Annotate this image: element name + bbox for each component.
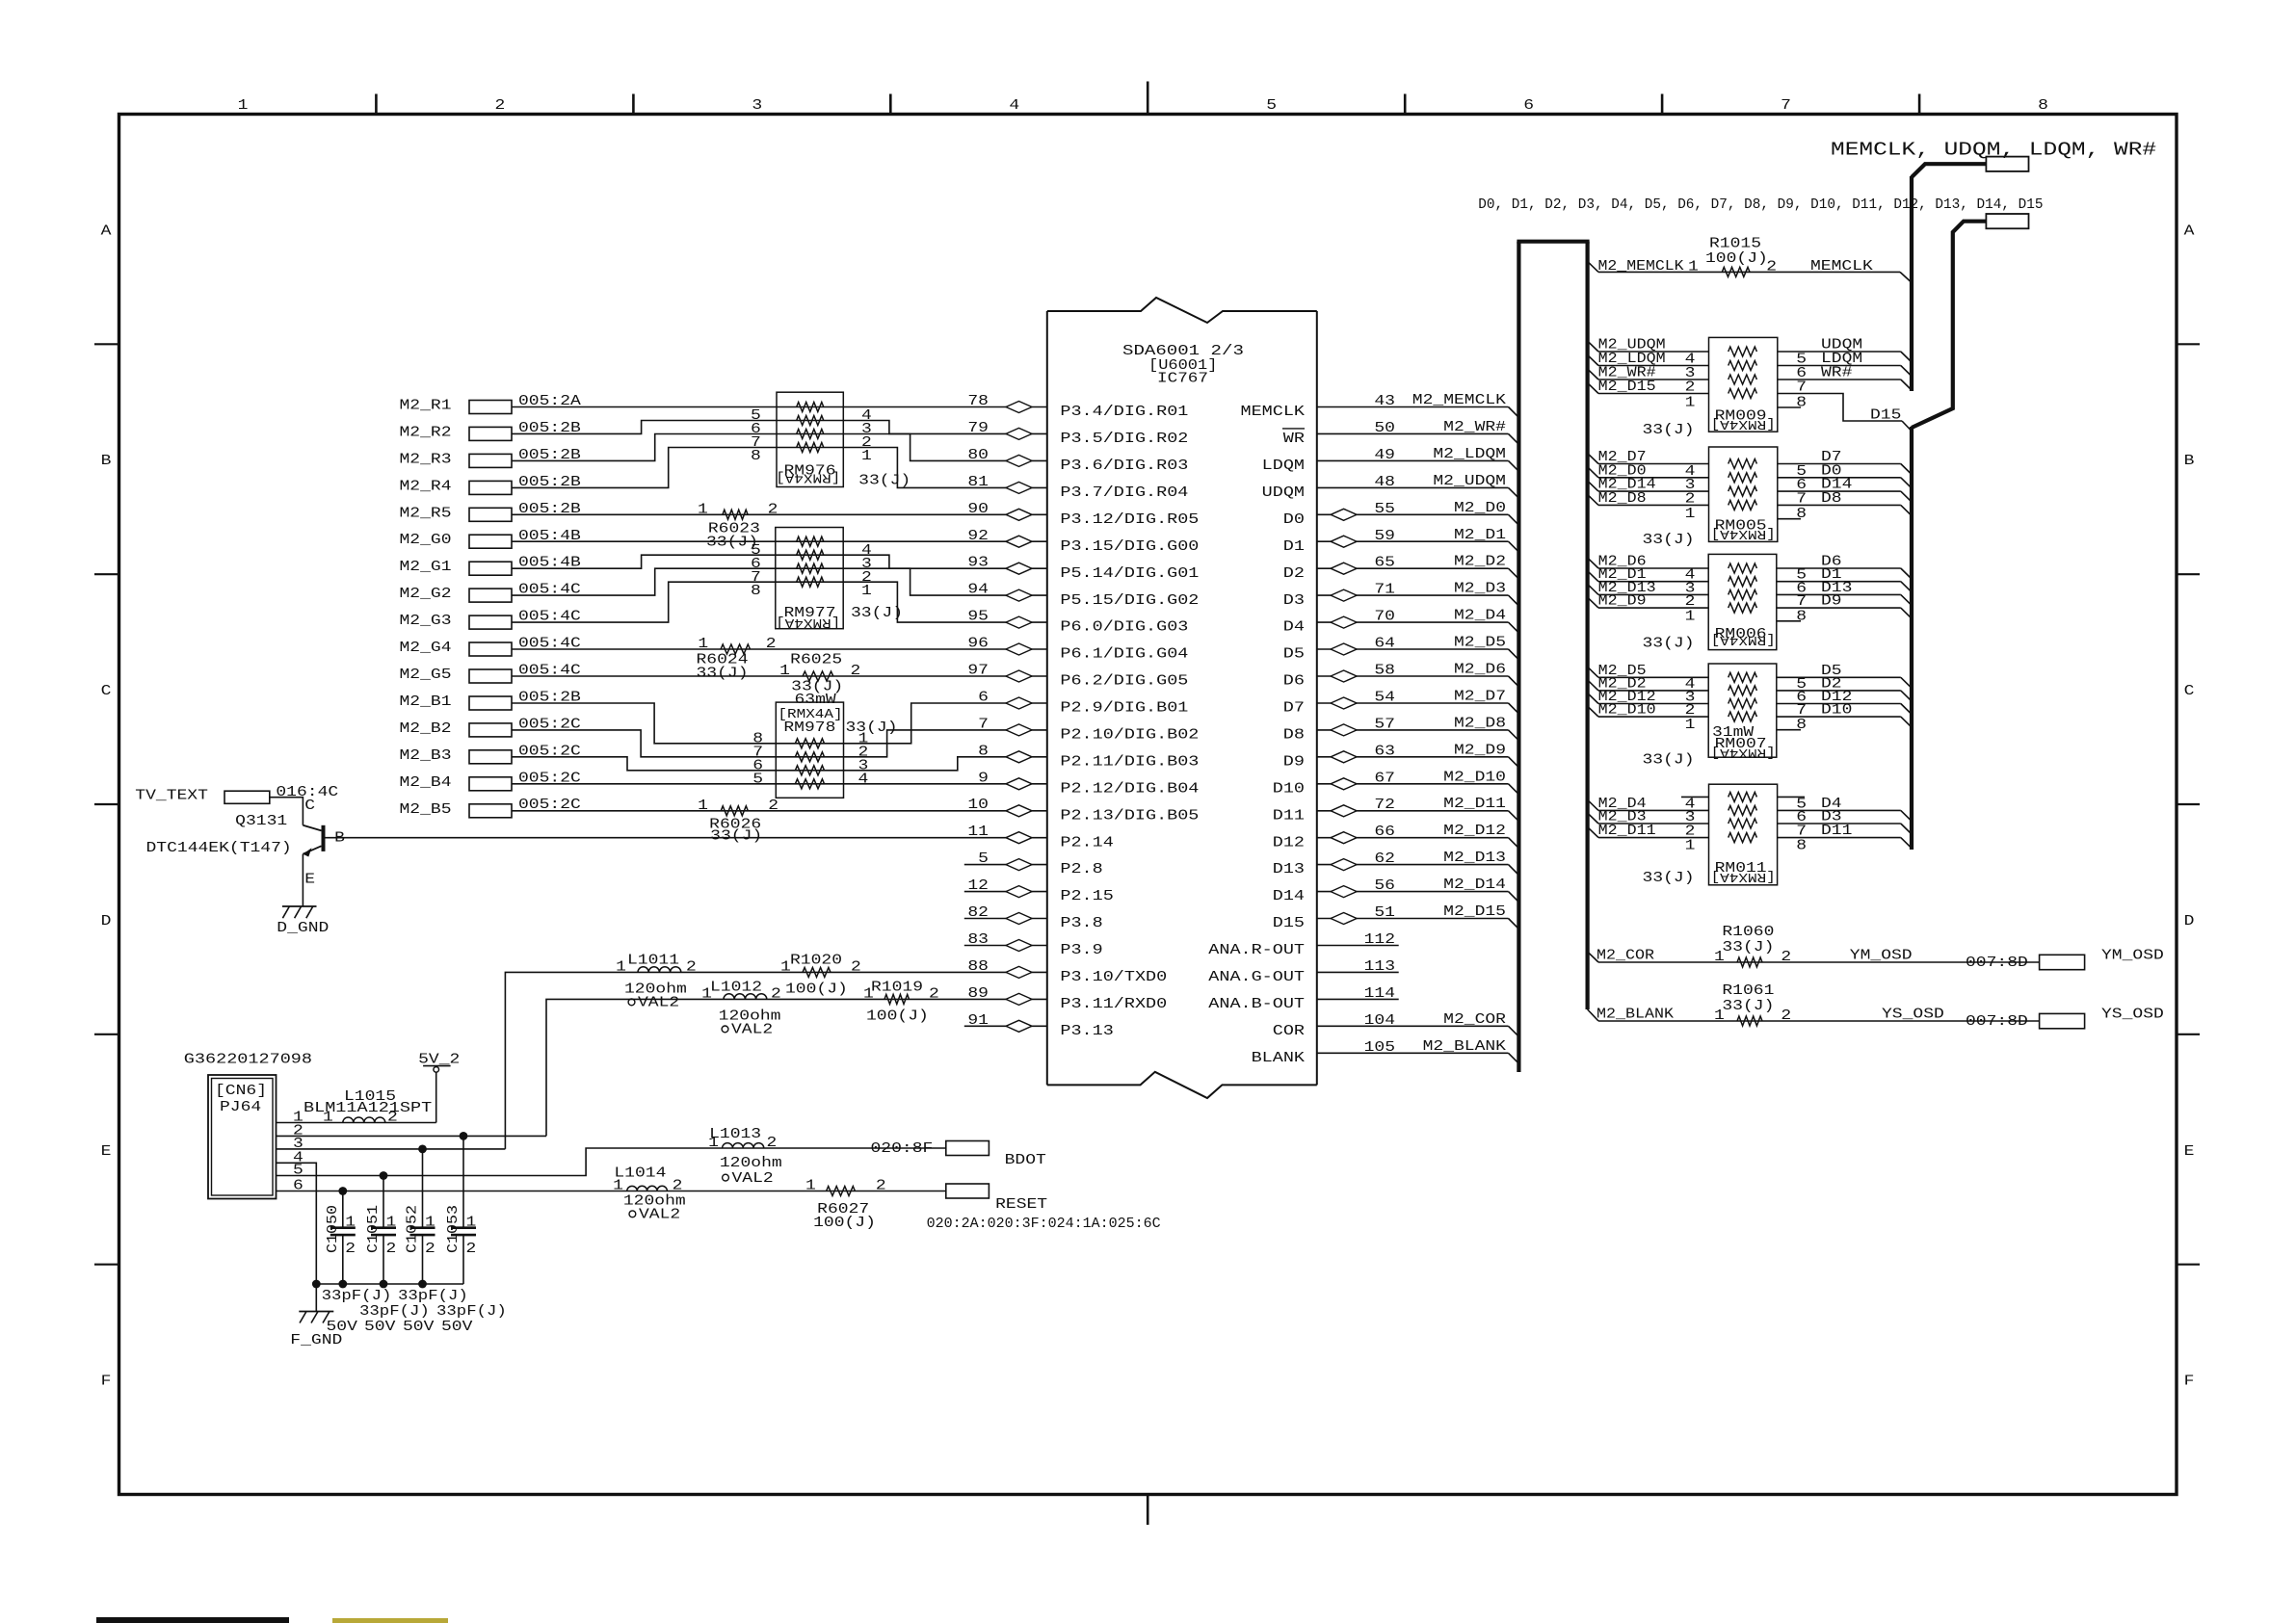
wire IC pin 58 to bus / net M2_D6: [1317, 675, 1509, 677]
svg-text:7: 7: [1796, 594, 1807, 610]
wire IC pin 105 to bus / net M2_BLANK: [1317, 1052, 1509, 1054]
svg-text:020:2A:020:3F:024:1A:025:6C: 020:2A:020:3F:024:1A:025:6C: [927, 1217, 1161, 1232]
resistor element 3 in RM011: [1729, 819, 1757, 828]
grid tick top col2: [632, 94, 635, 115]
off-page connector box BDOT: [946, 1141, 990, 1156]
svg-text:3: 3: [1685, 810, 1696, 825]
svg-text:C: C: [304, 798, 315, 814]
bus M2 right leg (thick): [1585, 242, 1589, 1009]
junction: [312, 1280, 321, 1289]
wire IC pin 70 to bus / net M2_D4: [1317, 621, 1509, 623]
wire M2_D15 from bus into RM009: [1588, 383, 1598, 394]
svg-text:7: 7: [1796, 703, 1807, 719]
bidirectional marker pin 56: [1331, 886, 1357, 898]
off-page connector box M2_R5: [469, 508, 512, 521]
svg-text:33pF(J): 33pF(J): [398, 1289, 468, 1304]
svg-text:7: 7: [1796, 825, 1807, 840]
svg-text:D15: D15: [1273, 916, 1305, 931]
svg-text:A: A: [2184, 223, 2195, 239]
wire IC pin 57 to bus / net M2_D8: [1317, 729, 1509, 731]
svg-text:2: 2: [1766, 259, 1777, 275]
svg-text:G36220127098: G36220127098: [184, 1052, 312, 1067]
svg-text:1: 1: [1685, 609, 1696, 624]
svg-text:M2_UDQM: M2_UDQM: [1433, 474, 1506, 489]
wire M2_MEMCLK from bus to R1015 to MEMCLK bus: [1588, 261, 1598, 272]
svg-text:D7: D7: [1283, 701, 1305, 717]
svg-text:R6025: R6025: [790, 653, 842, 668]
svg-text:R1015: R1015: [1709, 237, 1761, 252]
wire D0 to data bus: [1778, 477, 1901, 479]
grid tick left row2: [94, 573, 119, 575]
svg-text:M2_D5: M2_D5: [1454, 636, 1506, 651]
svg-text:D11: D11: [1821, 824, 1852, 839]
svg-text:M2_D10: M2_D10: [1598, 703, 1656, 719]
wire M2_D2 from bus into RM007: [1588, 680, 1598, 691]
resistor element 2 in RM009: [1729, 361, 1757, 371]
svg-text:70: 70: [1374, 610, 1395, 625]
wire D2 to data bus: [1777, 690, 1901, 692]
wire M2_R5 row: [512, 513, 1047, 515]
svg-text:M2_D11: M2_D11: [1598, 824, 1656, 839]
inductor L1013: [723, 1143, 764, 1148]
resistor element 2 in network: [797, 416, 824, 426]
wire M2_UDQM from bus into RM009: [1588, 341, 1598, 352]
svg-text:2: 2: [851, 959, 861, 975]
svg-text:2: 2: [1781, 950, 1791, 965]
svg-text:1: 1: [1688, 259, 1699, 275]
svg-text:100(J): 100(J): [1705, 251, 1768, 267]
svg-text:P2.14: P2.14: [1060, 835, 1113, 851]
transistor Q3131: [322, 825, 326, 851]
svg-text:48: 48: [1374, 475, 1395, 490]
wire L1011/R1020 row to IC pin 88: [505, 972, 1046, 1149]
resistor R6027: [827, 1187, 856, 1196]
svg-text:IC767: IC767: [1157, 372, 1208, 387]
off-page connector box M2_B1: [469, 696, 512, 710]
svg-text:M2_D9: M2_D9: [1454, 743, 1506, 758]
connector CN6 PJ64 box: [208, 1075, 277, 1199]
svg-text:8: 8: [1796, 839, 1807, 854]
svg-text:L1012: L1012: [710, 980, 762, 995]
wire D7 to data bus: [1778, 463, 1901, 465]
svg-text:[RMX4A]: [RMX4A]: [776, 615, 840, 630]
svg-text:D3: D3: [1821, 810, 1842, 825]
svg-text:[RMX4A]: [RMX4A]: [1711, 632, 1776, 647]
svg-text:33(J): 33(J): [1722, 999, 1774, 1014]
svg-text:LDQM: LDQM: [1262, 458, 1305, 474]
resistor element 1 in RM006: [1729, 563, 1757, 573]
svg-text:2: 2: [686, 959, 697, 975]
svg-text:P2.13/DIG.B05: P2.13/DIG.B05: [1060, 808, 1199, 824]
resistor element 4 in RM007: [1729, 712, 1757, 721]
svg-text:1: 1: [805, 1179, 816, 1194]
svg-text:M2_D9: M2_D9: [1598, 594, 1647, 610]
svg-text:100(J): 100(J): [866, 1008, 929, 1024]
svg-text:P3.12/DIG.R05: P3.12/DIG.R05: [1060, 512, 1199, 528]
svg-text:112: 112: [1364, 932, 1395, 948]
svg-text:1: 1: [616, 959, 626, 975]
L1011 value VAL2: [628, 999, 635, 1006]
svg-text:55: 55: [1374, 502, 1395, 517]
resistor element 3 in RM007: [1729, 699, 1757, 709]
svg-text:F: F: [2184, 1374, 2195, 1390]
RM005 pin 8 stub: [1778, 518, 1801, 520]
svg-text:7: 7: [1796, 491, 1807, 507]
wire D14 to data bus: [1778, 490, 1901, 492]
wire IC pin 72 to bus / net M2_D11: [1317, 810, 1509, 812]
off-page connector box M2_R4: [469, 481, 512, 494]
resistor element 3 in RM006: [1729, 589, 1757, 599]
svg-text:51: 51: [1374, 905, 1395, 921]
svg-text:M2_D6: M2_D6: [1454, 663, 1506, 678]
RM009 pin 8 stub: [1778, 406, 1801, 408]
wire CN6 pin4 to F_GND: [277, 1163, 317, 1311]
svg-text:8: 8: [1796, 718, 1807, 733]
svg-text:1: 1: [698, 798, 708, 814]
bidirectional marker pin 58: [1331, 670, 1357, 682]
bidirectional marker pin 62: [1331, 859, 1357, 871]
wire stub IC pin 12: [964, 891, 1047, 893]
svg-text:M2_D15: M2_D15: [1443, 904, 1506, 920]
wire M2_LDQM from bus into RM009: [1588, 355, 1598, 366]
svg-text:4: 4: [858, 772, 869, 787]
wire D5 to data bus: [1777, 676, 1901, 678]
wire IC pin 59 to bus / net M2_D1: [1317, 540, 1509, 542]
svg-text:D12: D12: [1273, 835, 1305, 851]
grid tick top col6: [1661, 94, 1664, 115]
grid tick top col4: [1147, 82, 1149, 115]
svg-text:1: 1: [698, 502, 708, 517]
svg-text:M2_COR: M2_COR: [1443, 1012, 1506, 1028]
L1014 value VAL2: [629, 1211, 636, 1217]
off-page connector box M2_G4: [469, 642, 512, 656]
svg-text:D11: D11: [1273, 808, 1305, 824]
svg-text:59: 59: [1374, 529, 1395, 544]
svg-text:M2_D8: M2_D8: [1598, 491, 1647, 507]
grid tick top col1: [375, 94, 378, 115]
wire M2_B4 row straight: [512, 783, 1047, 785]
svg-text:120ohm: 120ohm: [720, 1156, 782, 1171]
wire M2_D9 from bus into RM006: [1588, 597, 1598, 608]
wire M2_D3 from bus into RM011: [1588, 813, 1598, 824]
svg-text:P3.10/TXD0: P3.10/TXD0: [1060, 970, 1167, 985]
svg-text:1: 1: [1685, 396, 1696, 411]
resistor element 4 in RM005: [1729, 500, 1757, 510]
svg-text:L1011: L1011: [627, 953, 679, 968]
svg-text:M2_D3: M2_D3: [1598, 810, 1647, 825]
wire M2_B2 with jogs: [512, 730, 1047, 757]
resistor R1060: [1737, 957, 1762, 967]
resistor element 2 in RM005: [1729, 473, 1757, 483]
bidirectional marker pin 67: [1331, 778, 1357, 790]
resistor R1061: [1737, 1016, 1762, 1026]
L1013 value VAL2: [723, 1174, 729, 1181]
resistor network RM978 box: [776, 702, 843, 798]
svg-text:E: E: [304, 873, 315, 888]
wire CN6 pin2 to L1012 column: [277, 1135, 547, 1137]
svg-text:M2_G1: M2_G1: [400, 560, 452, 575]
off-page connector box M2_G5: [469, 669, 512, 683]
svg-text:[RMX4A]: [RMX4A]: [1711, 526, 1776, 541]
svg-text:1: 1: [698, 637, 708, 652]
bus MEMCLK vertical (thick): [1910, 176, 1913, 391]
wire IC pin 56 to bus / net M2_D14: [1317, 891, 1509, 893]
svg-text:2: 2: [1781, 1008, 1791, 1024]
svg-text:YS_OSD: YS_OSD: [2101, 1008, 2164, 1023]
bidirectional marker pin 57: [1331, 724, 1357, 736]
svg-text:C1051: C1051: [366, 1205, 382, 1253]
wire D6 to data bus: [1777, 567, 1901, 569]
wire M2_G3 with jogs: [512, 582, 1047, 622]
svg-text:8: 8: [1796, 507, 1807, 522]
svg-text:P3.8: P3.8: [1060, 916, 1102, 931]
capacitor C1053: [462, 1136, 464, 1227]
svg-text:M2_G0: M2_G0: [400, 533, 452, 548]
page border frame: [119, 115, 2177, 1495]
svg-text:C1050: C1050: [326, 1205, 341, 1253]
svg-text:YM_OSD: YM_OSD: [2101, 949, 2164, 964]
wire CN6 pin5 to L1013/BDOT: [277, 1148, 946, 1176]
wire M2_R4 with jogs: [512, 448, 1047, 488]
resistor network RM977 box: [776, 528, 843, 629]
wire M2_D10 from bus into RM007: [1588, 706, 1598, 717]
resistor R6025: [803, 671, 833, 681]
svg-text:33(J): 33(J): [1643, 533, 1695, 548]
wire M2_WR# from bus into RM009: [1588, 369, 1598, 380]
svg-text:M2_D1: M2_D1: [1454, 528, 1506, 543]
wire IC pin 113 stub: [1317, 971, 1399, 973]
wire M2_B5 row: [512, 810, 1047, 812]
wire M2_D12 from bus into RM007: [1588, 694, 1598, 704]
svg-text:P3.4/DIG.R01: P3.4/DIG.R01: [1060, 405, 1188, 420]
svg-text:43: 43: [1374, 394, 1395, 409]
wire D10 to data bus: [1777, 716, 1901, 718]
svg-text:33(J): 33(J): [846, 720, 898, 736]
resistor R1015: [1722, 267, 1750, 276]
svg-text:D3: D3: [1283, 593, 1305, 609]
svg-text:M2_D8: M2_D8: [1454, 716, 1506, 731]
svg-text:P2.10/DIG.B02: P2.10/DIG.B02: [1060, 728, 1199, 744]
svg-text:71: 71: [1374, 583, 1395, 598]
wire IC pin 49 to bus / net M2_LDQM: [1317, 459, 1509, 461]
wire M2_G0 row straight: [512, 540, 1047, 542]
bus wire D0-D15 (thick): [1912, 222, 1986, 428]
svg-text:D10: D10: [1273, 781, 1305, 797]
svg-text:8: 8: [1796, 396, 1807, 411]
off-page connector box M2_B5: [469, 804, 512, 818]
resistor element 4 in network: [797, 443, 824, 453]
resistor R6026: [721, 806, 748, 816]
grid tick left row4: [94, 1034, 119, 1035]
svg-text:R1020: R1020: [790, 953, 842, 968]
svg-text:M2_G2: M2_G2: [400, 587, 452, 602]
svg-text:33pF(J): 33pF(J): [322, 1289, 392, 1304]
svg-text:50V: 50V: [364, 1320, 396, 1335]
svg-text:2: 2: [1685, 703, 1696, 719]
svg-text:D0, D1, D2, D3, D4, D5, D6, D7: D0, D1, D2, D3, D4, D5, D6, D7, D8, D9, …: [1478, 196, 2043, 213]
svg-text:2: 2: [345, 1242, 356, 1257]
wire IC pin 43 to bus / net M2_MEMCLK: [1317, 406, 1509, 408]
svg-text:007:8D: 007:8D: [1966, 1014, 2028, 1030]
svg-text:M2_R3: M2_R3: [400, 452, 452, 467]
svg-text:M2_G4: M2_G4: [400, 641, 452, 656]
svg-text:R1061: R1061: [1722, 983, 1774, 999]
off-page connector box M2_B2: [469, 723, 512, 737]
svg-text:L1014: L1014: [614, 1166, 666, 1182]
bidirectional marker pin 51: [1331, 913, 1357, 925]
svg-text:P2.15: P2.15: [1060, 889, 1113, 904]
junction: [338, 1280, 347, 1289]
svg-text:M2_R4: M2_R4: [400, 479, 452, 494]
wire UDQM to data bus: [1778, 351, 1901, 353]
svg-text:D4: D4: [1283, 620, 1305, 636]
resistor element 3 in RM978: [795, 766, 824, 775]
wire IC pin 104 to bus / net M2_COR: [1317, 1025, 1509, 1027]
wire M2_R2 with jogs: [512, 421, 1047, 434]
resistor R1020: [803, 967, 831, 977]
svg-text:50V: 50V: [403, 1320, 435, 1335]
capacitor C1052: [422, 1149, 424, 1228]
svg-text:66: 66: [1374, 825, 1395, 840]
svg-text:33(J): 33(J): [1722, 940, 1774, 955]
off-page connector box M2_B3: [469, 750, 512, 764]
wire D3 to data bus: [1778, 823, 1901, 825]
svg-text:1: 1: [1685, 839, 1696, 854]
wire D4 to data bus: [1778, 809, 1901, 811]
svg-text:M2_D3: M2_D3: [1454, 582, 1506, 597]
svg-text:1: 1: [1685, 718, 1696, 733]
svg-text:P6.2/DIG.G05: P6.2/DIG.G05: [1060, 674, 1188, 690]
resistor network RM007 box: [1708, 664, 1777, 757]
svg-text:M2_B2: M2_B2: [400, 721, 452, 737]
svg-text:M2_MEMCLK: M2_MEMCLK: [1412, 393, 1507, 408]
grid tick left row3: [94, 803, 119, 805]
svg-text:2: 2: [767, 1136, 778, 1151]
svg-text:63: 63: [1374, 744, 1395, 759]
wire M2_B3 with jogs: [512, 757, 1047, 771]
svg-text:SDA6001 2/3: SDA6001 2/3: [1122, 344, 1244, 359]
svg-text:B: B: [101, 454, 112, 469]
svg-text:P3.7/DIG.R04: P3.7/DIG.R04: [1060, 485, 1188, 501]
svg-text:P2.9/DIG.B01: P2.9/DIG.B01: [1060, 701, 1188, 717]
svg-text:2: 2: [768, 502, 779, 517]
svg-text:6: 6: [1796, 810, 1807, 825]
bidirectional marker pin 54: [1331, 697, 1357, 709]
svg-text:M2_D0: M2_D0: [1454, 501, 1506, 516]
svg-text:M2_G5: M2_G5: [400, 668, 452, 683]
resistor element 2 in RM011: [1729, 805, 1757, 815]
svg-text:RM978: RM978: [783, 720, 835, 736]
resistor R6024: [721, 644, 751, 654]
svg-text:M2_B4: M2_B4: [400, 775, 452, 791]
capacitor C1050: [342, 1191, 344, 1228]
grid tick right row4: [2177, 1034, 2200, 1035]
wire RM009 pin7 to D15: [1778, 394, 1902, 422]
svg-text:33pF(J): 33pF(J): [436, 1304, 507, 1320]
svg-text:M2_D11: M2_D11: [1443, 797, 1506, 812]
svg-text:1: 1: [238, 98, 249, 114]
svg-text:ANA.G-OUT: ANA.G-OUT: [1208, 970, 1305, 985]
wire M2_BLANK row: [1588, 1009, 1598, 1021]
wire RM011 top stubs: [1681, 796, 1709, 798]
wire M2_D8 from bus into RM005: [1588, 494, 1598, 505]
svg-text:D5: D5: [1283, 647, 1305, 663]
svg-text:M2_D10: M2_D10: [1443, 770, 1506, 785]
wire M2_B1 with jogs: [512, 703, 1047, 744]
svg-text:D0: D0: [1283, 512, 1305, 528]
wire M2_D14 from bus into RM005: [1588, 481, 1598, 491]
svg-text:50V: 50V: [441, 1320, 473, 1335]
RM006 pin 8 stub: [1777, 620, 1801, 622]
svg-text:2: 2: [495, 98, 506, 114]
grid tick bottom center: [1147, 1495, 1149, 1526]
off-page connector box M2_G3: [469, 615, 512, 629]
svg-text:100(J): 100(J): [785, 982, 848, 997]
svg-text:1: 1: [466, 1216, 477, 1231]
svg-text:[RMX4A]: [RMX4A]: [1711, 745, 1776, 760]
wire D11 to data bus: [1778, 837, 1901, 839]
svg-text:P5.14/DIG.G01: P5.14/DIG.G01: [1060, 566, 1199, 582]
svg-text:8: 8: [751, 584, 761, 599]
off-page connector box YS_OSD: [2040, 1013, 2085, 1028]
inductor L1012: [724, 994, 767, 1000]
svg-text:M2_D15: M2_D15: [1598, 380, 1656, 395]
svg-text:WR#: WR#: [1821, 366, 1853, 381]
svg-text:2: 2: [425, 1242, 435, 1257]
wire IC pin 112 stub: [1317, 945, 1399, 947]
svg-text:2: 2: [673, 1179, 683, 1194]
svg-text:M2_MEMCLK: M2_MEMCLK: [1598, 259, 1684, 275]
svg-text:M2_B3: M2_B3: [400, 748, 452, 764]
svg-text:A: A: [101, 223, 112, 239]
wire M2_D4 from bus into RM011: [1588, 799, 1598, 810]
wire IC pin 54 to bus / net M2_D7: [1317, 702, 1509, 704]
svg-text:YS_OSD: YS_OSD: [1882, 1008, 1944, 1023]
wire Q3131 base to IC pin 11: [326, 837, 1047, 839]
svg-text:R1019: R1019: [871, 980, 923, 995]
resistor element 2 in network: [797, 550, 824, 560]
resistor element 1 in RM009: [1729, 347, 1757, 356]
svg-text:2: 2: [1685, 594, 1696, 610]
svg-text:2: 2: [466, 1242, 477, 1257]
inductor L1011: [638, 967, 681, 973]
off-page connector box D0-D15: [1986, 214, 2028, 228]
resistor network RM009 box: [1709, 337, 1778, 432]
svg-text:33(J): 33(J): [1643, 637, 1695, 652]
wire IC pin 114 stub: [1317, 998, 1399, 1000]
wire M2_D13 from bus into RM006: [1588, 584, 1598, 594]
off-page connector box M2_G1: [469, 562, 512, 575]
page edge artifact bottom: [96, 1617, 289, 1623]
svg-text:54: 54: [1374, 691, 1395, 706]
resistor element 3 in network: [797, 563, 824, 573]
svg-text:3: 3: [752, 98, 762, 114]
svg-text:2: 2: [1685, 491, 1696, 507]
bus wire MEMCLK group (thick): [1912, 164, 1986, 177]
svg-text:33(J): 33(J): [1643, 753, 1695, 769]
svg-text:8: 8: [1796, 609, 1807, 624]
wire M2_D1 from bus into RM006: [1588, 571, 1598, 582]
svg-text:D6: D6: [1283, 674, 1305, 690]
svg-text:BDOT: BDOT: [1005, 1153, 1047, 1168]
wire M2_R1 row straight: [512, 406, 1047, 408]
svg-text:67: 67: [1374, 771, 1395, 786]
svg-text:M2_BLANK: M2_BLANK: [1597, 1008, 1674, 1023]
wire stub IC pin 83: [964, 945, 1047, 947]
svg-text:2: 2: [876, 1179, 886, 1194]
bidirectional marker pin 71: [1331, 589, 1357, 601]
svg-text:P5.15/DIG.G02: P5.15/DIG.G02: [1060, 593, 1199, 609]
